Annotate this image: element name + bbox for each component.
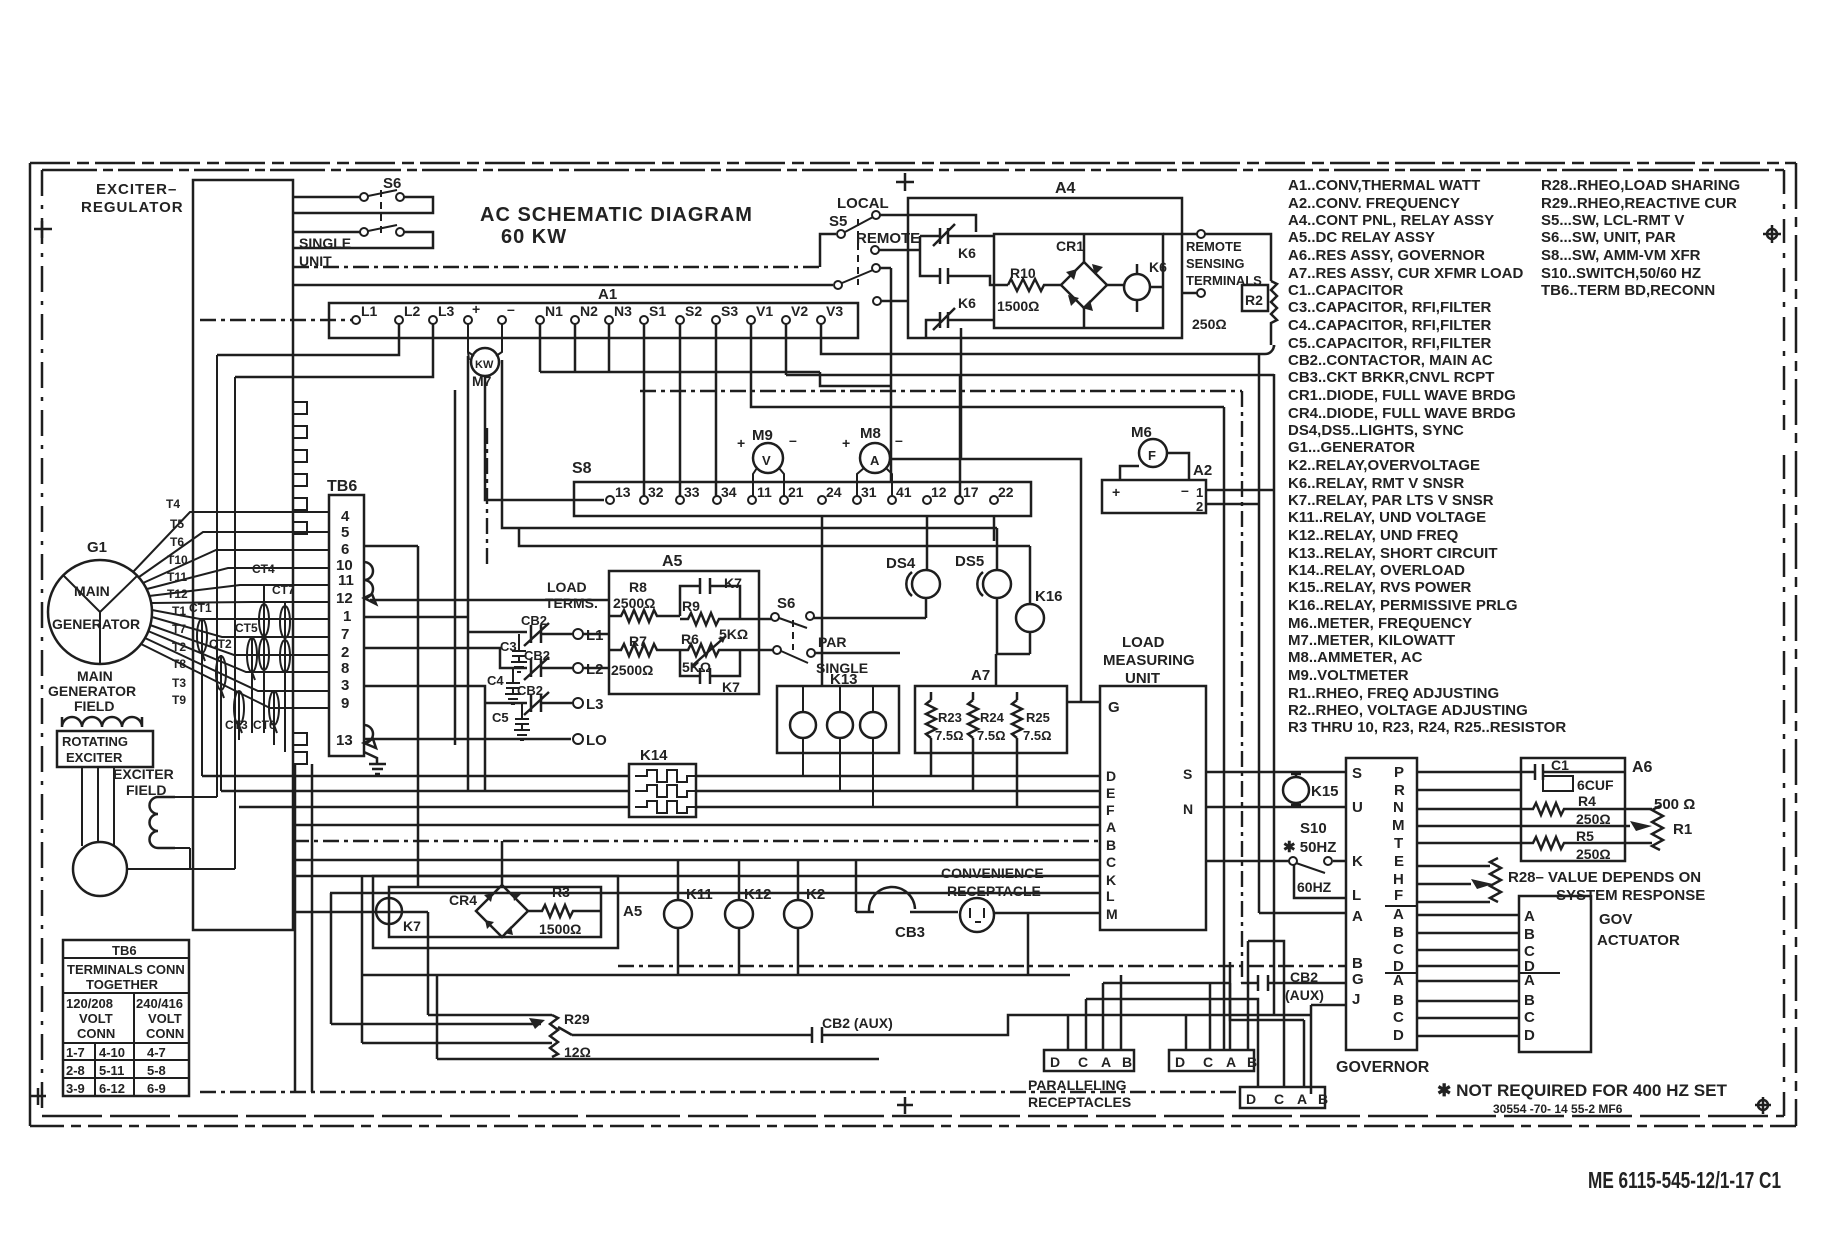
svg-text:ACTUATOR: ACTUATOR [1597, 932, 1680, 949]
wire N bus [540, 324, 890, 386]
svg-text:MEASURING: MEASURING [1103, 652, 1195, 669]
svg-text:CONVENIENCE: CONVENIENCE [941, 865, 1044, 881]
wires exciter to armature [82, 767, 114, 846]
wire unit dash-dot to S5 pole1 [293, 266, 820, 268]
svg-text:2500Ω: 2500Ω [611, 662, 653, 678]
svg-text:A4: A4 [1055, 180, 1076, 197]
svg-text:B: B [1122, 1054, 1132, 1070]
svg-text:EXCITER–: EXCITER– [96, 181, 177, 198]
svg-text:S8...SW, AMM-VM XFR: S8...SW, AMM-VM XFR [1541, 247, 1701, 264]
svg-text:L: L [1106, 888, 1115, 904]
bus dash-dot to governor B [618, 965, 1346, 967]
svg-text:D: D [1050, 1054, 1060, 1070]
wire A4 to R2 top [1205, 234, 1274, 347]
svg-text:L1: L1 [586, 627, 604, 644]
svg-text:M9: M9 [752, 427, 773, 444]
svg-text:A: A [1101, 1054, 1111, 1070]
svg-text:5: 5 [341, 524, 349, 541]
svg-text:S6...SW, UNIT, PAR: S6...SW, UNIT, PAR [1541, 229, 1676, 246]
svg-text:PARALLELING: PARALLELING [1028, 1077, 1127, 1093]
svg-text:T: T [1394, 835, 1403, 852]
svg-text:60 KW: 60 KW [501, 226, 567, 248]
svg-text:FIELD: FIELD [74, 698, 114, 714]
svg-text:L2: L2 [404, 303, 421, 319]
svg-text:P: P [1394, 764, 1404, 781]
svg-text:G1...GENERATOR: G1...GENERATOR [1288, 439, 1415, 456]
svg-text:R28..RHEO,LOAD SHARING: R28..RHEO,LOAD SHARING [1541, 177, 1740, 194]
svg-text:–: – [789, 432, 797, 448]
wire V1 drop [751, 324, 1224, 407]
wire step to K16 [519, 528, 1030, 546]
bus wire K [293, 875, 1100, 878]
svg-text:TERMINALS CONN: TERMINALS CONN [67, 962, 185, 977]
wire S10 to governor K [1206, 860, 1347, 863]
svg-text:A2: A2 [1193, 462, 1212, 479]
svg-text:S3: S3 [721, 303, 738, 319]
svg-text:K7..RELAY, PAR LTS V SNSR: K7..RELAY, PAR LTS V SNSR [1288, 492, 1494, 509]
svg-text:CR4..DIODE, FULL WAVE BRDG: CR4..DIODE, FULL WAVE BRDG [1288, 405, 1516, 422]
svg-text:K6: K6 [1149, 259, 1167, 275]
svg-text:CB2..CONTACTOR, MAIN AC: CB2..CONTACTOR, MAIN AC [1288, 352, 1493, 369]
svg-text:2-8: 2-8 [66, 1063, 85, 1078]
svg-text:LOCAL: LOCAL [837, 195, 889, 212]
svg-text:M6..METER, FREQUENCY: M6..METER, FREQUENCY [1288, 615, 1472, 632]
svg-text:41: 41 [896, 484, 912, 500]
svg-text:GENERATOR: GENERATOR [48, 683, 136, 699]
svg-text:12Ω: 12Ω [564, 1044, 591, 1060]
svg-text:D: D [1524, 1027, 1535, 1044]
svg-text:K2..RELAY,OVERVOLTAGE: K2..RELAY,OVERVOLTAGE [1288, 457, 1480, 474]
svg-text:(AUX): (AUX) [1285, 987, 1324, 1003]
svg-text:DS5: DS5 [955, 553, 984, 570]
ground at TB6-13 [364, 752, 386, 774]
svg-text:UNIT: UNIT [1125, 670, 1160, 687]
registration mark bottom-left [30, 1088, 46, 1105]
rheostat R2 voltage adjusting [1242, 285, 1268, 311]
svg-text:T5: T5 [170, 517, 184, 531]
bus wire C [293, 859, 1100, 862]
svg-text:CB2: CB2 [521, 613, 547, 628]
border frame inner top [42, 169, 1784, 172]
svg-text:R5: R5 [1576, 828, 1594, 844]
svg-text:240/416: 240/416 [136, 996, 183, 1011]
svg-text:8: 8 [341, 660, 349, 677]
bus wire J lower [1147, 1014, 1311, 1017]
svg-text:A: A [1393, 972, 1404, 989]
svg-text:RECEPTACLES: RECEPTACLES [1028, 1094, 1131, 1110]
svg-text:T8: T8 [172, 657, 186, 671]
svg-text:PAR: PAR [818, 634, 847, 650]
svg-text:G1: G1 [87, 539, 107, 556]
exciter field coil [150, 797, 176, 848]
svg-text:TB6: TB6 [112, 943, 137, 958]
svg-text:+: + [472, 301, 480, 317]
tap labels T4 T5 T6 T10 T11 T12 T1 T7 T2 T8 T3 T9 [166, 497, 188, 707]
resistor R25 7.5 ohm [1012, 692, 1022, 807]
receptacle feed wires P3 [1258, 1020, 1304, 1087]
svg-text:SENSING: SENSING [1186, 256, 1245, 271]
wire A4 bottom drop [960, 328, 963, 459]
svg-text:CR1: CR1 [1056, 238, 1084, 254]
svg-text:CONN: CONN [77, 1026, 115, 1041]
svg-text:D: D [1175, 1054, 1185, 1070]
svg-text:–: – [1181, 482, 1189, 498]
svg-text:M: M [1106, 906, 1118, 922]
wire SINGLE contact [815, 652, 900, 655]
svg-text:A1..CONV,THERMAL WATT: A1..CONV,THERMAL WATT [1288, 177, 1480, 194]
svg-text:5-11: 5-11 [99, 1063, 124, 1078]
svg-text:K11..RELAY, UND VOLTAGE: K11..RELAY, UND VOLTAGE [1288, 509, 1486, 526]
relay coil K15 [1283, 777, 1309, 803]
svg-text:A7..RES ASSY, CUR XFMR LOAD: A7..RES ASSY, CUR XFMR LOAD [1288, 265, 1523, 282]
wire governor R [1417, 789, 1521, 792]
svg-text:T3: T3 [172, 676, 186, 690]
svg-text:2: 2 [341, 644, 349, 661]
svg-text:L: L [1352, 887, 1361, 904]
wire dash-dot sense [640, 391, 1242, 983]
wire S8-17 riser [959, 375, 962, 496]
svg-text:N2: N2 [580, 303, 598, 319]
bus wire B dash-dot [293, 840, 1100, 842]
bus wire D [202, 775, 1100, 778]
svg-text:60HZ: 60HZ [1297, 879, 1332, 895]
svg-text:REMOTE: REMOTE [856, 230, 920, 247]
svg-text:K11: K11 [686, 886, 713, 903]
svg-text:TOGETHER: TOGETHER [86, 977, 159, 992]
svg-text:D: D [1246, 1091, 1256, 1107]
svg-text:C3..CAPACITOR, RFI,FILTER: C3..CAPACITOR, RFI,FILTER [1288, 299, 1492, 316]
svg-text:M7..METER, KILOWATT: M7..METER, KILOWATT [1288, 632, 1455, 649]
svg-text:6-9: 6-9 [147, 1081, 166, 1096]
TB6 reconnection table [63, 940, 189, 1096]
wire remote lower contact [880, 268, 908, 301]
relay contact K6 middle (NO) [920, 236, 1008, 285]
svg-text:E: E [1394, 853, 1404, 870]
staircase feed wires to contactor [364, 356, 527, 791]
svg-text:C5..CAPACITOR, RFI,FILTER: C5..CAPACITOR, RFI,FILTER [1288, 335, 1492, 352]
svg-text:6-12: 6-12 [99, 1081, 125, 1096]
svg-text:C: C [1274, 1091, 1284, 1107]
wire A2 pin2 [1206, 503, 1259, 506]
svg-text:TB6..TERM BD,RECONN: TB6..TERM BD,RECONN [1541, 282, 1715, 299]
svg-text:32: 32 [648, 484, 664, 500]
svg-text:R2: R2 [1245, 292, 1263, 308]
border frame outer top [30, 162, 1796, 165]
svg-text:GOVERNOR: GOVERNOR [1336, 1059, 1430, 1076]
svg-text:R24: R24 [980, 710, 1005, 725]
wire S8-24 drop to K13 [821, 516, 824, 686]
paralleling receptacle P3 [1240, 1087, 1325, 1108]
svg-text:CR4: CR4 [449, 892, 477, 908]
registration mark top-middle [896, 173, 914, 191]
wire riser x891 [890, 268, 893, 482]
wire A7 to LMU G [1067, 701, 1100, 704]
svg-text:250Ω: 250Ω [1576, 811, 1611, 827]
wire TB6-12 riser [370, 599, 609, 602]
svg-text:K: K [1106, 872, 1116, 888]
svg-text:13: 13 [615, 484, 631, 500]
wire S8-22 drop to DS5 [993, 516, 996, 541]
svg-text:+: + [737, 435, 745, 451]
wire A1 feed dash-dot [200, 319, 352, 321]
svg-text:M9..VOLTMETER: M9..VOLTMETER [1288, 667, 1409, 684]
receptacle feed wires P1 [1068, 975, 1121, 1050]
svg-text:N: N [1393, 799, 1404, 816]
wire M7 to S8-13 [485, 376, 604, 500]
svg-text:33: 33 [684, 484, 700, 500]
wire remote contact to K6 [879, 249, 920, 252]
svg-text:C1: C1 [1551, 757, 1569, 773]
wire S8-12 drop to DS4 [926, 516, 929, 570]
wire M8 minus to LMU G riser [890, 459, 1081, 702]
svg-text:R29..RHEO,REACTIVE CUR: R29..RHEO,REACTIVE CUR [1541, 195, 1737, 212]
wire DS5 K16 common [996, 654, 1030, 686]
relay contact K6 lower (NC) [933, 308, 994, 330]
svg-text:T10: T10 [167, 553, 188, 567]
svg-text:S5...SW, LCL-RMT V: S5...SW, LCL-RMT V [1541, 212, 1684, 229]
generator G1 [48, 560, 152, 664]
wires governor to actuator [1417, 915, 1519, 1036]
svg-text:T1: T1 [172, 604, 186, 618]
svg-text:G: G [1108, 699, 1120, 716]
svg-text:AC SCHEMATIC DIAGRAM: AC SCHEMATIC DIAGRAM [480, 204, 753, 226]
svg-text:LOAD: LOAD [547, 579, 587, 595]
svg-text:CT5: CT5 [235, 621, 258, 635]
svg-text:K14..RELAY, OVERLOAD: K14..RELAY, OVERLOAD [1288, 562, 1465, 579]
svg-text:120/208: 120/208 [66, 996, 113, 1011]
svg-text:A: A [1524, 972, 1535, 989]
svg-text:1: 1 [1196, 485, 1203, 500]
svg-text:7.5Ω: 7.5Ω [977, 728, 1006, 743]
svg-text:A6..RES ASSY, GOVERNOR: A6..RES ASSY, GOVERNOR [1288, 247, 1485, 264]
svg-text:R4: R4 [1578, 793, 1596, 809]
wire V3 drop [821, 324, 1274, 354]
svg-text:B: B [1393, 924, 1404, 941]
TB6 winding arcs [364, 562, 376, 604]
svg-text:4: 4 [341, 508, 350, 525]
svg-text:9: 9 [341, 695, 349, 712]
svg-text:R3: R3 [552, 884, 570, 900]
svg-text:DS4: DS4 [886, 555, 916, 572]
svg-text:S8: S8 [572, 460, 592, 477]
svg-text:REGULATOR: REGULATOR [81, 199, 184, 216]
relay coil K7 [376, 898, 402, 924]
svg-text:N1: N1 [545, 303, 563, 319]
svg-text:VOLT: VOLT [79, 1011, 113, 1026]
svg-text:U: U [1352, 799, 1363, 816]
wire governor E H F to R28 [1417, 866, 1490, 902]
svg-text:R23: R23 [938, 710, 962, 725]
svg-text:+: + [842, 435, 850, 451]
bus wire A [293, 824, 1100, 827]
svg-text:S2: S2 [685, 303, 702, 319]
svg-text:C1..CAPACITOR: C1..CAPACITOR [1288, 282, 1403, 299]
wire L2 drop [217, 324, 399, 355]
svg-text:S: S [1352, 765, 1362, 782]
svg-text:5KΩ: 5KΩ [682, 659, 711, 675]
svg-text:✱ NOT REQUIRED FOR 400 HZ SET: ✱ NOT REQUIRED FOR 400 HZ SET [1437, 1081, 1728, 1100]
svg-text:A7: A7 [971, 667, 990, 684]
svg-text:CB2 (AUX): CB2 (AUX) [822, 1015, 893, 1031]
border frame right outer [1795, 163, 1798, 1126]
svg-text:R8: R8 [629, 579, 647, 595]
svg-text:6CUF: 6CUF [1577, 777, 1614, 793]
svg-text:R2..RHEO, VOLTAGE ADJUSTING: R2..RHEO, VOLTAGE ADJUSTING [1288, 702, 1528, 719]
svg-text:E: E [1106, 785, 1115, 801]
wire armature to field [127, 355, 235, 869]
svg-text:B: B [1106, 837, 1116, 853]
svg-text:MAIN: MAIN [77, 668, 113, 684]
svg-text:M8..AMMETER, AC: M8..AMMETER, AC [1288, 649, 1423, 666]
svg-text:A5..DC RELAY ASSY: A5..DC RELAY ASSY [1288, 229, 1435, 246]
svg-text:B: B [1524, 992, 1535, 1009]
svg-text:1: 1 [343, 608, 351, 625]
svg-text:S10..SWITCH,50/60 HZ: S10..SWITCH,50/60 HZ [1541, 265, 1701, 282]
svg-text:GENERATOR: GENERATOR [52, 616, 140, 632]
svg-text:A5: A5 [623, 903, 642, 920]
wire L3 drop [235, 324, 433, 377]
svg-text:CT2: CT2 [209, 637, 232, 651]
bus wire E [221, 790, 1100, 793]
wire riser to governor A [1259, 912, 1346, 915]
load terminal L0 [573, 734, 583, 744]
svg-text:S6: S6 [383, 175, 401, 192]
svg-text:TERMS.: TERMS. [545, 595, 598, 611]
svg-text:CR1..DIODE, FULL WAVE BRDG: CR1..DIODE, FULL WAVE BRDG [1288, 387, 1516, 404]
svg-text:C: C [1393, 941, 1404, 958]
svg-text:J: J [1352, 991, 1360, 1008]
svg-text:C: C [1078, 1054, 1088, 1070]
rheostat R28 load sharing [1490, 858, 1501, 902]
meter M7 kilowatt [468, 324, 502, 360]
registration mark bottom-right [1755, 1097, 1771, 1114]
svg-text:30554 -70- 14 55-2 MF6: 30554 -70- 14 55-2 MF6 [1493, 1102, 1623, 1116]
svg-text:L2: L2 [586, 661, 604, 678]
svg-text:REMOTE: REMOTE [1186, 239, 1242, 254]
svg-text:A4..CONT PNL, RELAY ASSY: A4..CONT PNL, RELAY ASSY [1288, 212, 1494, 229]
svg-text:34: 34 [721, 484, 737, 500]
border frame bottom outer [30, 1125, 1796, 1128]
svg-text:RECEPTACLE: RECEPTACLE [947, 883, 1041, 899]
wire contact3 feed [926, 320, 940, 338]
svg-text:K14: K14 [640, 747, 668, 764]
svg-text:S: S [1183, 766, 1192, 782]
bus wire F [239, 806, 1100, 809]
svg-text:17: 17 [963, 484, 979, 500]
A1 terminals [352, 316, 825, 324]
bus wire L [330, 892, 1100, 895]
svg-text:+: + [1112, 484, 1120, 500]
svg-text:13: 13 [336, 732, 353, 749]
svg-text:✱ 50HZ: ✱ 50HZ [1283, 839, 1336, 856]
svg-text:A: A [1297, 1091, 1307, 1107]
exciter armature [73, 842, 127, 896]
svg-text:2: 2 [1196, 499, 1203, 514]
svg-text:11: 11 [757, 484, 772, 500]
svg-text:S5: S5 [829, 213, 847, 230]
wire S6 pole1 [293, 197, 433, 213]
svg-text:A: A [1524, 908, 1535, 925]
relay contact K6 upper (NC) [920, 224, 994, 246]
svg-text:K7: K7 [722, 679, 740, 695]
svg-text:ME 6115-545-12/1-17 C1: ME 6115-545-12/1-17 C1 [1588, 1167, 1781, 1193]
svg-text:L3: L3 [586, 696, 604, 713]
svg-text:T6: T6 [170, 535, 184, 549]
wire risers to governor area [1224, 355, 1274, 1050]
svg-text:K15: K15 [1311, 783, 1339, 800]
svg-text:1500Ω: 1500Ω [997, 298, 1039, 314]
svg-text:VOLT: VOLT [148, 1011, 182, 1026]
svg-text:V: V [762, 453, 771, 468]
svg-text:L1: L1 [361, 303, 378, 319]
svg-text:3-9: 3-9 [66, 1081, 85, 1096]
rotating exciter box [57, 731, 153, 767]
svg-text:M: M [1392, 817, 1405, 834]
svg-text:K6: K6 [958, 245, 976, 261]
svg-text:FIELD: FIELD [126, 782, 166, 798]
wire LMU N to governor U [1206, 806, 1346, 809]
svg-text:S6: S6 [777, 595, 795, 612]
svg-text:N3: N3 [614, 303, 632, 319]
junction wires above receptacles [1086, 941, 1304, 1060]
svg-text:21: 21 [788, 484, 804, 500]
svg-text:T2: T2 [172, 640, 186, 654]
resistor R24 7.5 ohm [968, 692, 978, 791]
svg-text:CB3: CB3 [895, 924, 925, 941]
svg-text:4-7: 4-7 [147, 1045, 166, 1060]
svg-text:A: A [1106, 819, 1116, 835]
svg-text:MAIN: MAIN [74, 583, 110, 599]
svg-text:A1: A1 [598, 286, 617, 303]
svg-text:K12: K12 [744, 886, 772, 903]
bus wire M [994, 912, 1100, 915]
svg-text:S10: S10 [1300, 820, 1327, 837]
svg-text:3: 3 [341, 677, 349, 694]
wire to S5 pole2 [293, 284, 833, 287]
svg-text:22: 22 [998, 484, 1014, 500]
svg-text:A6: A6 [1632, 759, 1653, 776]
svg-text:T7: T7 [172, 622, 186, 636]
border frame bottom inner [42, 1115, 1784, 1118]
load terminal L2 [573, 663, 583, 673]
load terminal L1 [573, 629, 583, 639]
wire minus to DS5 [502, 360, 997, 528]
svg-text:R28– VALUE DEPENDS ON: R28– VALUE DEPENDS ON [1508, 869, 1701, 886]
border frame right inner [1783, 170, 1786, 1116]
svg-text:250Ω: 250Ω [1576, 846, 1611, 862]
svg-text:K16..RELAY, PERMISSIVE PRLG: K16..RELAY, PERMISSIVE PRLG [1288, 597, 1518, 614]
paralleling receptacle P1 [1044, 1050, 1134, 1071]
svg-text:EXCITER: EXCITER [66, 750, 123, 765]
svg-text:L3: L3 [438, 303, 455, 319]
exciter-regulator box [193, 180, 293, 930]
placeholder-groups [48, 180, 329, 1096]
svg-text:T11: T11 [167, 570, 187, 584]
svg-text:A: A [1393, 906, 1404, 923]
registration mark bottom-middle [897, 1097, 913, 1114]
wire LMU S to governor [1206, 771, 1346, 774]
wire left riser bundle [293, 764, 879, 1092]
svg-text:–: – [507, 301, 515, 317]
svg-text:12: 12 [931, 484, 947, 500]
svg-text:CB3..CKT BRKR,CNVL RCPT: CB3..CKT BRKR,CNVL RCPT [1288, 369, 1494, 386]
svg-text:D: D [1106, 768, 1116, 784]
svg-text:R3 THRU 10, R23, R24, R25..RE: R3 THRU 10, R23, R24, R25..RESISTOR [1288, 719, 1566, 736]
svg-text:250Ω: 250Ω [1192, 316, 1227, 332]
svg-text:500 Ω: 500 Ω [1654, 796, 1695, 813]
border frame left outer [29, 163, 32, 1126]
svg-text:R1: R1 [1673, 821, 1692, 838]
